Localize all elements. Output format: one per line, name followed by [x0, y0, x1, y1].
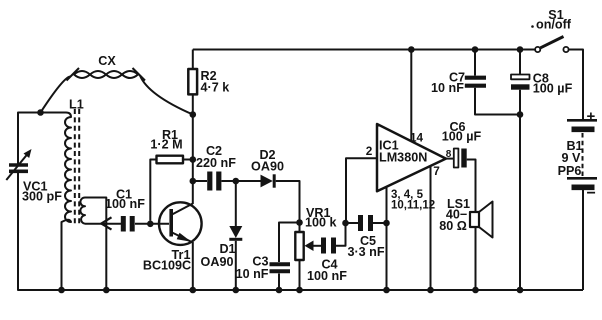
svg-text:8: 8 — [446, 149, 452, 160]
svg-text:1·2 M: 1·2 M — [150, 138, 182, 152]
svg-text:10,11,12: 10,11,12 — [391, 200, 435, 212]
wire secondary top to ground drop — [85, 198, 106, 291]
wire pins 3,4,5,10,11,12 ground — [386, 187, 388, 291]
svg-text:7: 7 — [433, 164, 440, 178]
arrowhead artifact on secondary wire — [101, 217, 111, 229]
svg-text:100 nF: 100 nF — [105, 197, 145, 211]
node junction D1 ground — [233, 287, 240, 294]
svg-text:100 nF: 100 nF — [307, 269, 347, 283]
node junction base / R1 — [147, 221, 154, 228]
wire left tuned-circuit top — [18, 113, 66, 164]
capacitor C6 (electrolytic) — [446, 149, 476, 213]
wire secondary bottom to C1 — [85, 223, 121, 225]
node junction C7/C8 ground link — [517, 111, 524, 118]
inductor L1 primary winding — [62, 113, 72, 291]
op-amp IC1 LM380N — [377, 124, 446, 191]
capacitor C3 — [270, 223, 300, 291]
node junction top of tuned circuit — [37, 109, 44, 116]
node junction C8 rail — [517, 46, 524, 53]
transistor Tr1 — [159, 202, 202, 245]
svg-text:on/off: on/off — [536, 18, 572, 32]
wire emitter down — [192, 242, 194, 290]
node junction pin7 ground — [427, 287, 434, 294]
capacitor C7 — [465, 50, 520, 115]
svg-text:3·3 nF: 3·3 nF — [347, 245, 384, 259]
node junction C5 ground line — [383, 220, 390, 227]
node junction C7 rail — [472, 46, 479, 53]
node junction C3 ground — [276, 287, 283, 294]
capacitor VC1 (variable) — [6, 149, 31, 180]
node junction collector/C2 — [190, 178, 197, 185]
capacitor C8 (electrolytic) — [511, 50, 530, 291]
node junction secondary ground — [103, 287, 110, 294]
resistor R2 — [188, 50, 197, 182]
svg-text:100 µF: 100 µF — [533, 82, 573, 96]
node junction emitter ground — [190, 287, 197, 294]
svg-text:220 nF: 220 nF — [196, 156, 236, 170]
wire C1 to base — [135, 223, 169, 225]
diode D2 — [236, 174, 300, 219]
node junction C2/D1/D2 — [233, 178, 240, 185]
switch S1 — [535, 37, 583, 120]
node junction LS1 ground — [472, 287, 479, 294]
svg-text:300 pF: 300 pF — [22, 190, 62, 204]
potentiometer VR1 — [295, 223, 321, 291]
loudspeaker LS1 — [470, 202, 493, 291]
battery B1 — [567, 120, 597, 290]
svg-text:9 V: 9 V — [562, 151, 582, 165]
svg-text:PP6: PP6 — [558, 164, 582, 178]
node junction C4/C5/pin2 — [342, 220, 349, 227]
svg-text:LM380N: LM380N — [379, 151, 427, 165]
node junction pin14 rail — [408, 46, 415, 53]
svg-text:14: 14 — [410, 131, 424, 145]
svg-text:OA90: OA90 — [251, 159, 284, 173]
node junction VR1 top — [296, 219, 303, 226]
resistor R1 — [150, 156, 193, 221]
node junction VR1 ground — [296, 287, 303, 294]
capacitor C4 — [324, 223, 346, 254]
wire collector up — [192, 181, 194, 204]
svg-text:80 Ω: 80 Ω — [439, 219, 467, 233]
wire top supply rail — [193, 49, 535, 51]
capacitor CX twisted-wire — [41, 68, 193, 115]
svg-text:2: 2 — [366, 144, 373, 158]
wire pin 7 ground — [430, 166, 432, 290]
diode D1 — [229, 181, 242, 290]
capacitor C2 — [193, 172, 236, 191]
svg-text:+: + — [587, 108, 596, 125]
svg-text:CX: CX — [98, 54, 116, 68]
L1 core dashed lines — [75, 109, 79, 224]
svg-text:100 k: 100 k — [305, 216, 338, 230]
svg-text:D1: D1 — [219, 242, 235, 256]
svg-text:10 nF: 10 nF — [431, 81, 464, 95]
capacitor C1 — [123, 216, 132, 232]
svg-text:100 µF: 100 µF — [442, 130, 482, 144]
wire pin 2 input — [346, 158, 377, 220]
node junction CX / R2 — [190, 111, 197, 118]
svg-text:L1: L1 — [69, 98, 84, 112]
svg-text:OA90: OA90 — [201, 255, 234, 269]
svg-text:−: − — [587, 185, 596, 202]
node junction C8 ground — [517, 287, 524, 294]
svg-text:BC109C: BC109C — [143, 259, 191, 273]
svg-text:10 nF: 10 nF — [236, 267, 269, 281]
capacitor C5 — [346, 215, 387, 231]
node junction pins ground — [383, 287, 390, 294]
inductor L1 secondary winding — [80, 198, 85, 224]
node junction L1 bottom on ground rail — [58, 287, 65, 294]
period artifact — [531, 25, 534, 28]
wire bottom ground rail — [18, 173, 583, 290]
wire pin 14 supply — [410, 50, 412, 142]
node junction R1/R2 — [190, 156, 197, 163]
svg-text:4·7 k: 4·7 k — [201, 81, 231, 95]
